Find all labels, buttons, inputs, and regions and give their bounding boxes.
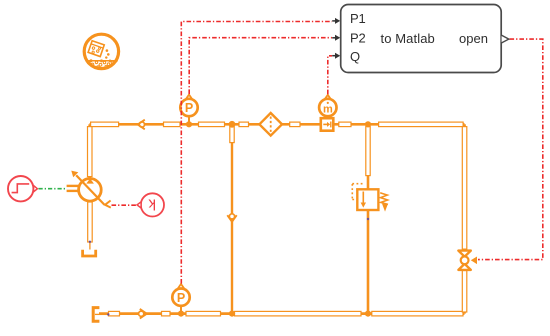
custom hydraulic fluid block icon bbox=[84, 34, 118, 68]
input arrow Q bbox=[332, 55, 336, 57]
pressure relief valve bbox=[352, 184, 388, 212]
signal wire: block output to valve (red dash-dot) bbox=[478, 39, 543, 260]
to-Matlab subsystem block bbox=[332, 5, 509, 73]
waypoint dot on pump tank line bbox=[89, 241, 91, 243]
junction node: top bus / relief branch bbox=[365, 121, 371, 127]
svg-text:P: P bbox=[185, 101, 193, 115]
input arrow P2 bbox=[332, 37, 336, 39]
tank symbol (bottom-left bracket) bbox=[93, 308, 99, 322]
orifice valve signal input arrow bbox=[471, 257, 477, 265]
waypoint dot on relief branch bbox=[367, 218, 369, 220]
junction node: bottom bus / middle branch bbox=[229, 311, 235, 317]
svg-text:to Matlab: to Matlab bbox=[381, 31, 435, 46]
svg-text:P1: P1 bbox=[350, 11, 366, 26]
pressure sensor P (top) bbox=[180, 95, 197, 122]
junction node: top bus / middle branch bbox=[229, 121, 236, 128]
wire: top bus (pump to top-right corner) bbox=[90, 123, 465, 126]
wire band segments (double-line look) bbox=[88, 122, 467, 316]
svg-text:m: m bbox=[323, 103, 333, 115]
input arrow P1 bbox=[332, 20, 336, 22]
flow rate sensor dial (m-dot circle) bbox=[319, 95, 336, 116]
flow marker on middle branch (down-pointing) bbox=[227, 214, 236, 222]
signal wire: bottom P sensor to P1 (red dash-dot) bbox=[181, 22, 332, 284]
gain block k (circle) bbox=[137, 193, 164, 216]
junction node: bottom bus / P sensor bbox=[178, 311, 184, 317]
svg-text:P: P bbox=[177, 291, 185, 305]
output port chevron bbox=[502, 35, 509, 43]
wire: right vertical (corner to valve to bottom bus) bbox=[463, 124, 466, 313]
pump shaft port bars bbox=[67, 185, 79, 187]
tank symbol (below pump) bbox=[83, 242, 96, 256]
signal wire: top P sensor to P2 (red dash-dot) bbox=[189, 38, 332, 94]
signal wire: flow sensor to Q (red dash-dot) bbox=[328, 56, 332, 94]
flow marker on bottom bus (right-pointing) bbox=[139, 309, 147, 319]
svg-text:Q: Q bbox=[350, 49, 360, 64]
junction node: top bus / P sensor bbox=[186, 121, 192, 127]
wire: bottom bus bbox=[99, 312, 465, 315]
wire: relief valve branch lower bbox=[367, 210, 370, 314]
variable orifice valve bbox=[458, 251, 477, 270]
hydraulic filter bbox=[259, 113, 282, 136]
svg-text:open: open bbox=[459, 31, 488, 46]
signal wire: step to pump (green dash-dot) bbox=[39, 188, 67, 190]
signal wire: k to pump (red dash-dot) bbox=[112, 204, 137, 206]
wire: pump bottom to tank bbox=[89, 201, 92, 243]
pump (variable displacement) bbox=[67, 171, 111, 208]
flow marker on top bus (left-pointing) bbox=[138, 120, 145, 130]
svg-text:k: k bbox=[148, 195, 156, 212]
wire: middle vertical branch bbox=[231, 124, 233, 313]
step source bbox=[8, 176, 37, 201]
pressure sensor P (bottom) bbox=[172, 284, 189, 311]
pump control port arrow (orange) bbox=[105, 201, 111, 208]
junction node: bottom bus / relief branch bbox=[365, 311, 371, 317]
wire: relief valve branch upper bbox=[367, 124, 370, 189]
flow rate sensor element (square) bbox=[321, 118, 334, 131]
wire: left vertical (top bus down to pump) bbox=[88, 124, 91, 178]
waypoint dot on bottom bus bbox=[107, 313, 109, 315]
wire stub from bracket bbox=[95, 313, 109, 315]
svg-text:P2: P2 bbox=[350, 31, 366, 46]
